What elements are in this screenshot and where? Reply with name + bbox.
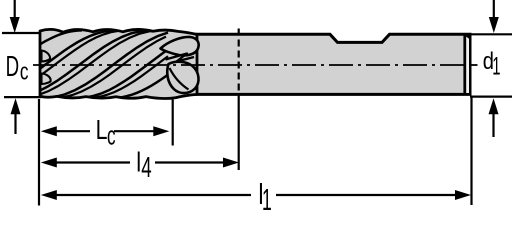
svg-text:D: D xyxy=(6,51,20,83)
svg-text:c: c xyxy=(107,121,116,151)
svg-text:l: l xyxy=(136,147,141,178)
svg-text:1: 1 xyxy=(492,53,500,81)
svg-text:L: L xyxy=(96,114,108,146)
svg-text:4: 4 xyxy=(141,152,151,184)
svg-text:1: 1 xyxy=(262,184,272,217)
svg-text:c: c xyxy=(20,59,29,85)
